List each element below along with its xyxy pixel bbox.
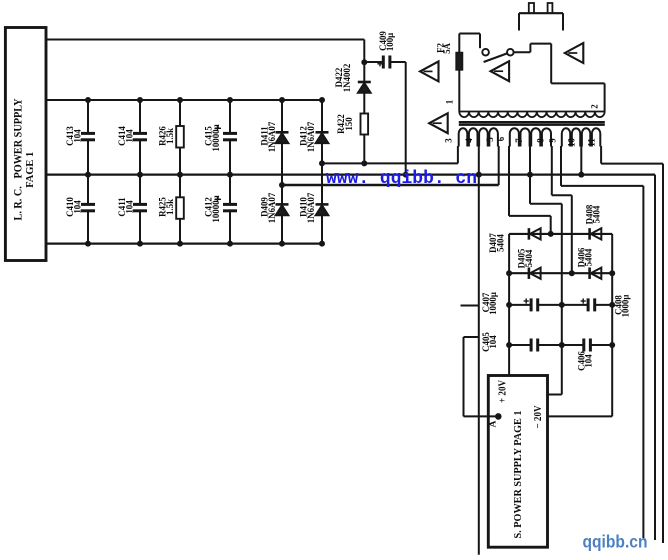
svg-text:3: 3 [444,138,454,143]
svg-text:qqibb.cn: qqibb.cn [583,532,648,552]
svg-text:1N6A07: 1N6A07 [267,192,277,223]
svg-text:104: 104 [73,200,83,214]
svg-text:1N6A07: 1N6A07 [267,121,277,152]
svg-text:100μ: 100μ [385,33,395,51]
svg-text:5404: 5404 [524,249,534,267]
svg-text:1.5k: 1.5k [165,128,175,144]
svg-text:− 20V: − 20V [533,405,544,429]
svg-text:104: 104 [488,335,498,349]
svg-text:10000μ: 10000μ [211,124,221,151]
svg-text:9: 9 [547,138,557,143]
svg-text:4: 4 [464,138,474,143]
svg-text:2: 2 [590,104,600,109]
svg-text:5A: 5A [442,42,452,53]
svg-text:1N6A07: 1N6A07 [306,192,316,223]
svg-text:104: 104 [73,129,83,143]
svg-text:5404: 5404 [495,234,505,252]
svg-text:1000μ: 1000μ [620,295,630,318]
svg-text:104: 104 [584,354,594,368]
svg-text:5404: 5404 [584,248,594,266]
svg-text:5: 5 [485,137,495,142]
svg-text:104: 104 [125,129,135,143]
svg-text:FAGE 1: FAGE 1 [25,152,36,188]
svg-text:10: 10 [567,138,577,147]
svg-text:6: 6 [496,136,506,141]
svg-text:1N6A07: 1N6A07 [306,121,316,152]
svg-text:10000μ: 10000μ [211,195,221,222]
svg-text:1000μ: 1000μ [488,292,498,315]
svg-text:1N4002: 1N4002 [342,63,352,92]
svg-text:1.5k: 1.5k [165,199,175,215]
svg-text:7: 7 [514,138,524,143]
svg-text:S. POWER SUPPLY PAGE 1: S. POWER SUPPLY PAGE 1 [512,411,524,539]
svg-text:150: 150 [344,117,354,131]
svg-text:+ 20V: + 20V [498,379,509,403]
svg-text:5404: 5404 [592,205,602,223]
svg-text:11: 11 [587,138,597,146]
svg-text:www. qqibb. cn: www. qqibb. cn [326,169,477,189]
svg-text:8: 8 [536,138,546,143]
svg-text:1: 1 [444,100,454,104]
svg-text:A: A [489,420,499,427]
svg-text:L. R. C. POWER SUPPLY: L. R. C. POWER SUPPLY [12,99,24,221]
svg-text:104: 104 [125,200,135,214]
